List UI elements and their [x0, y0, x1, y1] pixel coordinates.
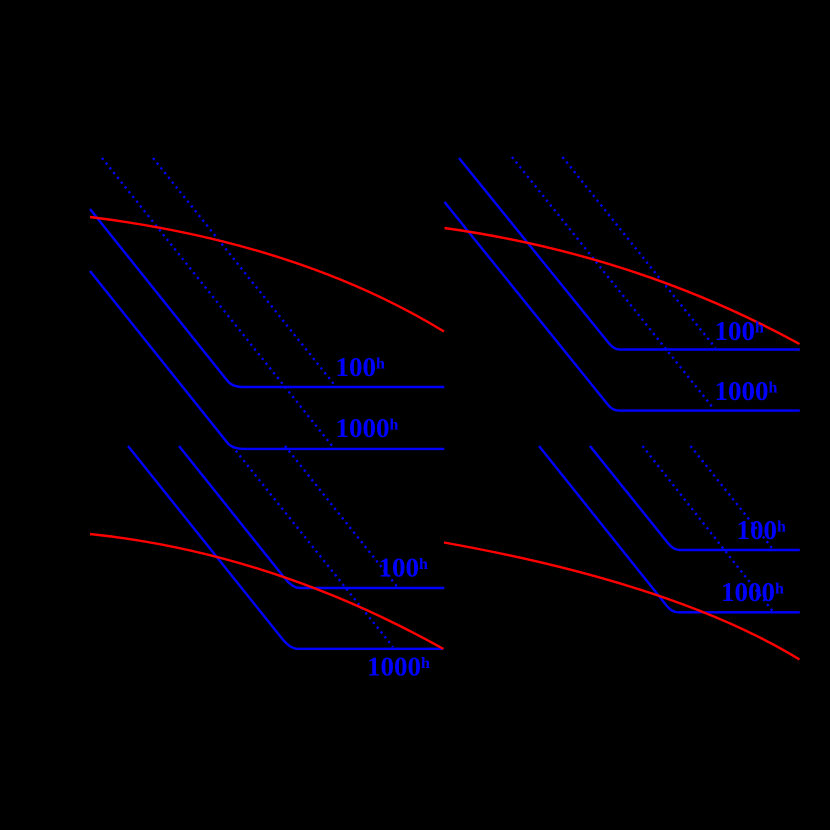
panel 2 solid 1000h curve — [445, 202, 800, 411]
panel 2 red curve — [445, 228, 800, 344]
svg-text:1000h: 1000h — [336, 413, 399, 443]
panel 4 dotted line 1 — [643, 446, 773, 611]
panel 1 solid 100h curve — [90, 209, 444, 387]
panel 3 dotted line 1 — [232, 446, 393, 647]
svg-text:1000h: 1000h — [715, 376, 778, 406]
panel 4 solid 1000h curve — [539, 446, 800, 612]
svg-text:1000h: 1000h — [721, 577, 784, 607]
panel 3 dotted line 2 — [285, 446, 397, 587]
panel 3 solid 100h curve — [179, 446, 444, 588]
panel 4 solid 100h curve — [590, 446, 800, 550]
panel 1 red curve — [90, 217, 444, 332]
panel 2 solid 100h curve — [459, 158, 800, 350]
panel 3 solid 1000h curve — [128, 446, 444, 649]
panel 1 dotted line 2 — [153, 158, 335, 386]
panel 4 dotted line 2 — [691, 446, 773, 548]
panel 3 red curve — [90, 534, 444, 649]
panel 2 dotted line 2 — [563, 157, 716, 348]
svg-text:1000h: 1000h — [367, 652, 430, 682]
panel 1 dotted line 1 — [102, 158, 333, 447]
panel 4 red curve — [444, 543, 800, 660]
panel 1 solid 1000h curve — [90, 271, 444, 449]
panel 2 dotted line 1 — [512, 157, 714, 409]
